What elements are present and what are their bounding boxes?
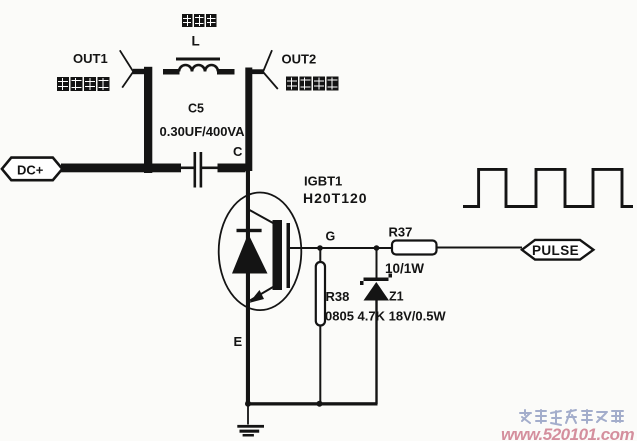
wire R37 to PULSE	[437, 247, 523, 249]
svg-text:IGBT1: IGBT1	[304, 174, 342, 189]
svg-text:R37: R37	[389, 225, 413, 240]
svg-text:H20T120: H20T120	[303, 190, 368, 206]
IGBT emitter diagonal	[250, 287, 273, 301]
resistor R38	[316, 262, 325, 326]
wire bottom	[246, 402, 377, 405]
svg-text:C5: C5	[188, 102, 204, 116]
wire bold to collector bus	[218, 164, 246, 173]
junction dot emitter/ground	[245, 401, 251, 407]
waveform square wave	[463, 169, 633, 206]
diode in IGBT: triangle	[232, 234, 268, 274]
svg-text:Z1: Z1	[389, 290, 404, 304]
terminal DC+	[2, 158, 62, 181]
inductor L	[163, 58, 235, 75]
zener Z1 triangle	[364, 282, 390, 301]
wire right bus	[245, 68, 252, 172]
junction dot gate/Z1	[374, 245, 380, 251]
connector OUT1	[120, 50, 146, 87]
svg-text:OUT1: OUT1	[73, 51, 108, 66]
svg-text:0.30UF/400VA: 0.30UF/400VA	[160, 124, 246, 139]
wire R38 to bottom	[319, 326, 321, 405]
resistor R37	[392, 241, 437, 255]
wire to C5 left plate	[180, 167, 194, 170]
connector OUT2	[252, 50, 278, 89]
svg-text:C: C	[233, 144, 243, 159]
wire DC+ bold	[61, 164, 181, 173]
svg-text:G: G	[326, 230, 336, 244]
wire Z1 to bottom	[375, 301, 377, 405]
wire left bus	[144, 67, 152, 173]
wire C5 right plate to bus	[202, 167, 218, 170]
svg-text:L: L	[192, 34, 200, 49]
label coil plate 线圈盘	[182, 14, 217, 27]
diode in IGBT: cathode bar	[237, 229, 262, 232]
transistor IGBT1 (ellipse)	[219, 193, 302, 311]
terminal PULSE	[522, 240, 594, 260]
svg-text:OUT2: OUT2	[282, 52, 317, 67]
IGBT body bar	[273, 220, 283, 290]
svg-text:PULSE: PULSE	[532, 243, 579, 258]
watermark 家电维修资料网	[520, 410, 623, 425]
svg-text:E: E	[234, 334, 243, 349]
IGBT collector diagonal	[250, 210, 274, 223]
capacitor C5	[194, 152, 203, 188]
svg-text:0805 4.7K 18V/0.5W: 0805 4.7K 18V/0.5W	[325, 309, 446, 324]
IGBT emitter arrow	[249, 290, 264, 303]
ground	[237, 405, 264, 437]
IGBT gate plate	[287, 223, 291, 288]
svg-text:DC+: DC+	[17, 163, 44, 178]
junction dot R38/bottom	[317, 401, 323, 407]
wire collector / emitter vertical	[246, 171, 250, 405]
wire gate	[290, 247, 392, 249]
label 接线圈盘 (OUT1)	[57, 77, 110, 91]
label 接线圈盘 (OUT2)	[286, 77, 339, 91]
svg-text:R38: R38	[326, 289, 350, 304]
svg-text:www.520101.com: www.520101.com	[501, 425, 635, 441]
junction dot gate/R38	[317, 245, 323, 251]
wire gate to R38	[319, 248, 321, 262]
wire gate to Z1	[376, 248, 378, 278]
zener Z1 cathode bar	[360, 274, 392, 286]
